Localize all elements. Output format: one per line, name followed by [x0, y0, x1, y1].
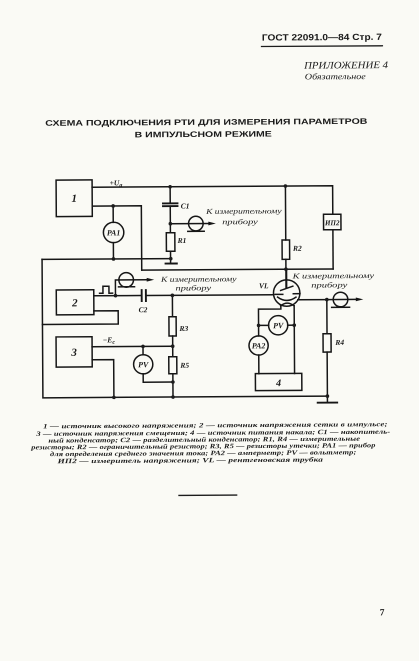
svg-text:R1: R1	[177, 236, 187, 245]
svg-text:СХЕМА ПОДКЛЮЧЕНИЯ РТИ ДЛЯ ИЗМЕ: СХЕМА ПОДКЛЮЧЕНИЯ РТИ ДЛЯ ИЗМЕРЕНИЯ ПАРА…	[45, 117, 368, 128]
svg-text:прибору: прибору	[176, 283, 212, 292]
svg-text:7: 7	[380, 608, 385, 618]
svg-text:РА2: РА2	[252, 341, 266, 350]
svg-text:ИП2: ИП2	[324, 218, 340, 227]
svg-text:ИП2 — измеритель напряжения; V: ИП2 — измеритель напряжения; VL — рентге…	[56, 457, 324, 466]
svg-text:PV: PV	[273, 321, 284, 330]
svg-text:В ИМПУЛЬСНОМ РЕЖИМЕ: В ИМПУЛЬСНОМ РЕЖИМЕ	[135, 130, 273, 140]
svg-text:прибору: прибору	[222, 217, 258, 226]
svg-text:R3: R3	[178, 324, 188, 333]
svg-text:К измерительному: К измерительному	[205, 206, 283, 215]
svg-text:ГОСТ 22091.0—84 Стр. 7: ГОСТ 22091.0—84 Стр. 7	[262, 32, 382, 43]
svg-text:1: 1	[71, 193, 77, 205]
svg-text:+Ua: +Ua	[110, 178, 123, 189]
svg-text:R2: R2	[292, 244, 302, 253]
svg-text:−Ec: −Ec	[103, 335, 116, 346]
svg-text:К измерительному: К измерительному	[291, 271, 375, 281]
svg-text:PV: PV	[138, 360, 149, 369]
svg-text:VL: VL	[259, 281, 269, 290]
svg-text:С1: С1	[181, 201, 190, 210]
svg-text:ПРИЛОЖЕНИЕ 4: ПРИЛОЖЕНИЕ 4	[303, 60, 388, 72]
svg-text:4: 4	[275, 378, 281, 389]
svg-text:3: 3	[70, 347, 77, 359]
svg-text:С2: С2	[139, 305, 148, 314]
svg-text:Обязательное: Обязательное	[305, 71, 366, 81]
svg-text:прибору: прибору	[311, 280, 348, 289]
svg-text:РА1: РА1	[107, 228, 121, 237]
svg-text:R4: R4	[334, 338, 344, 347]
svg-text:2: 2	[71, 297, 78, 309]
svg-text:R5: R5	[179, 361, 189, 370]
